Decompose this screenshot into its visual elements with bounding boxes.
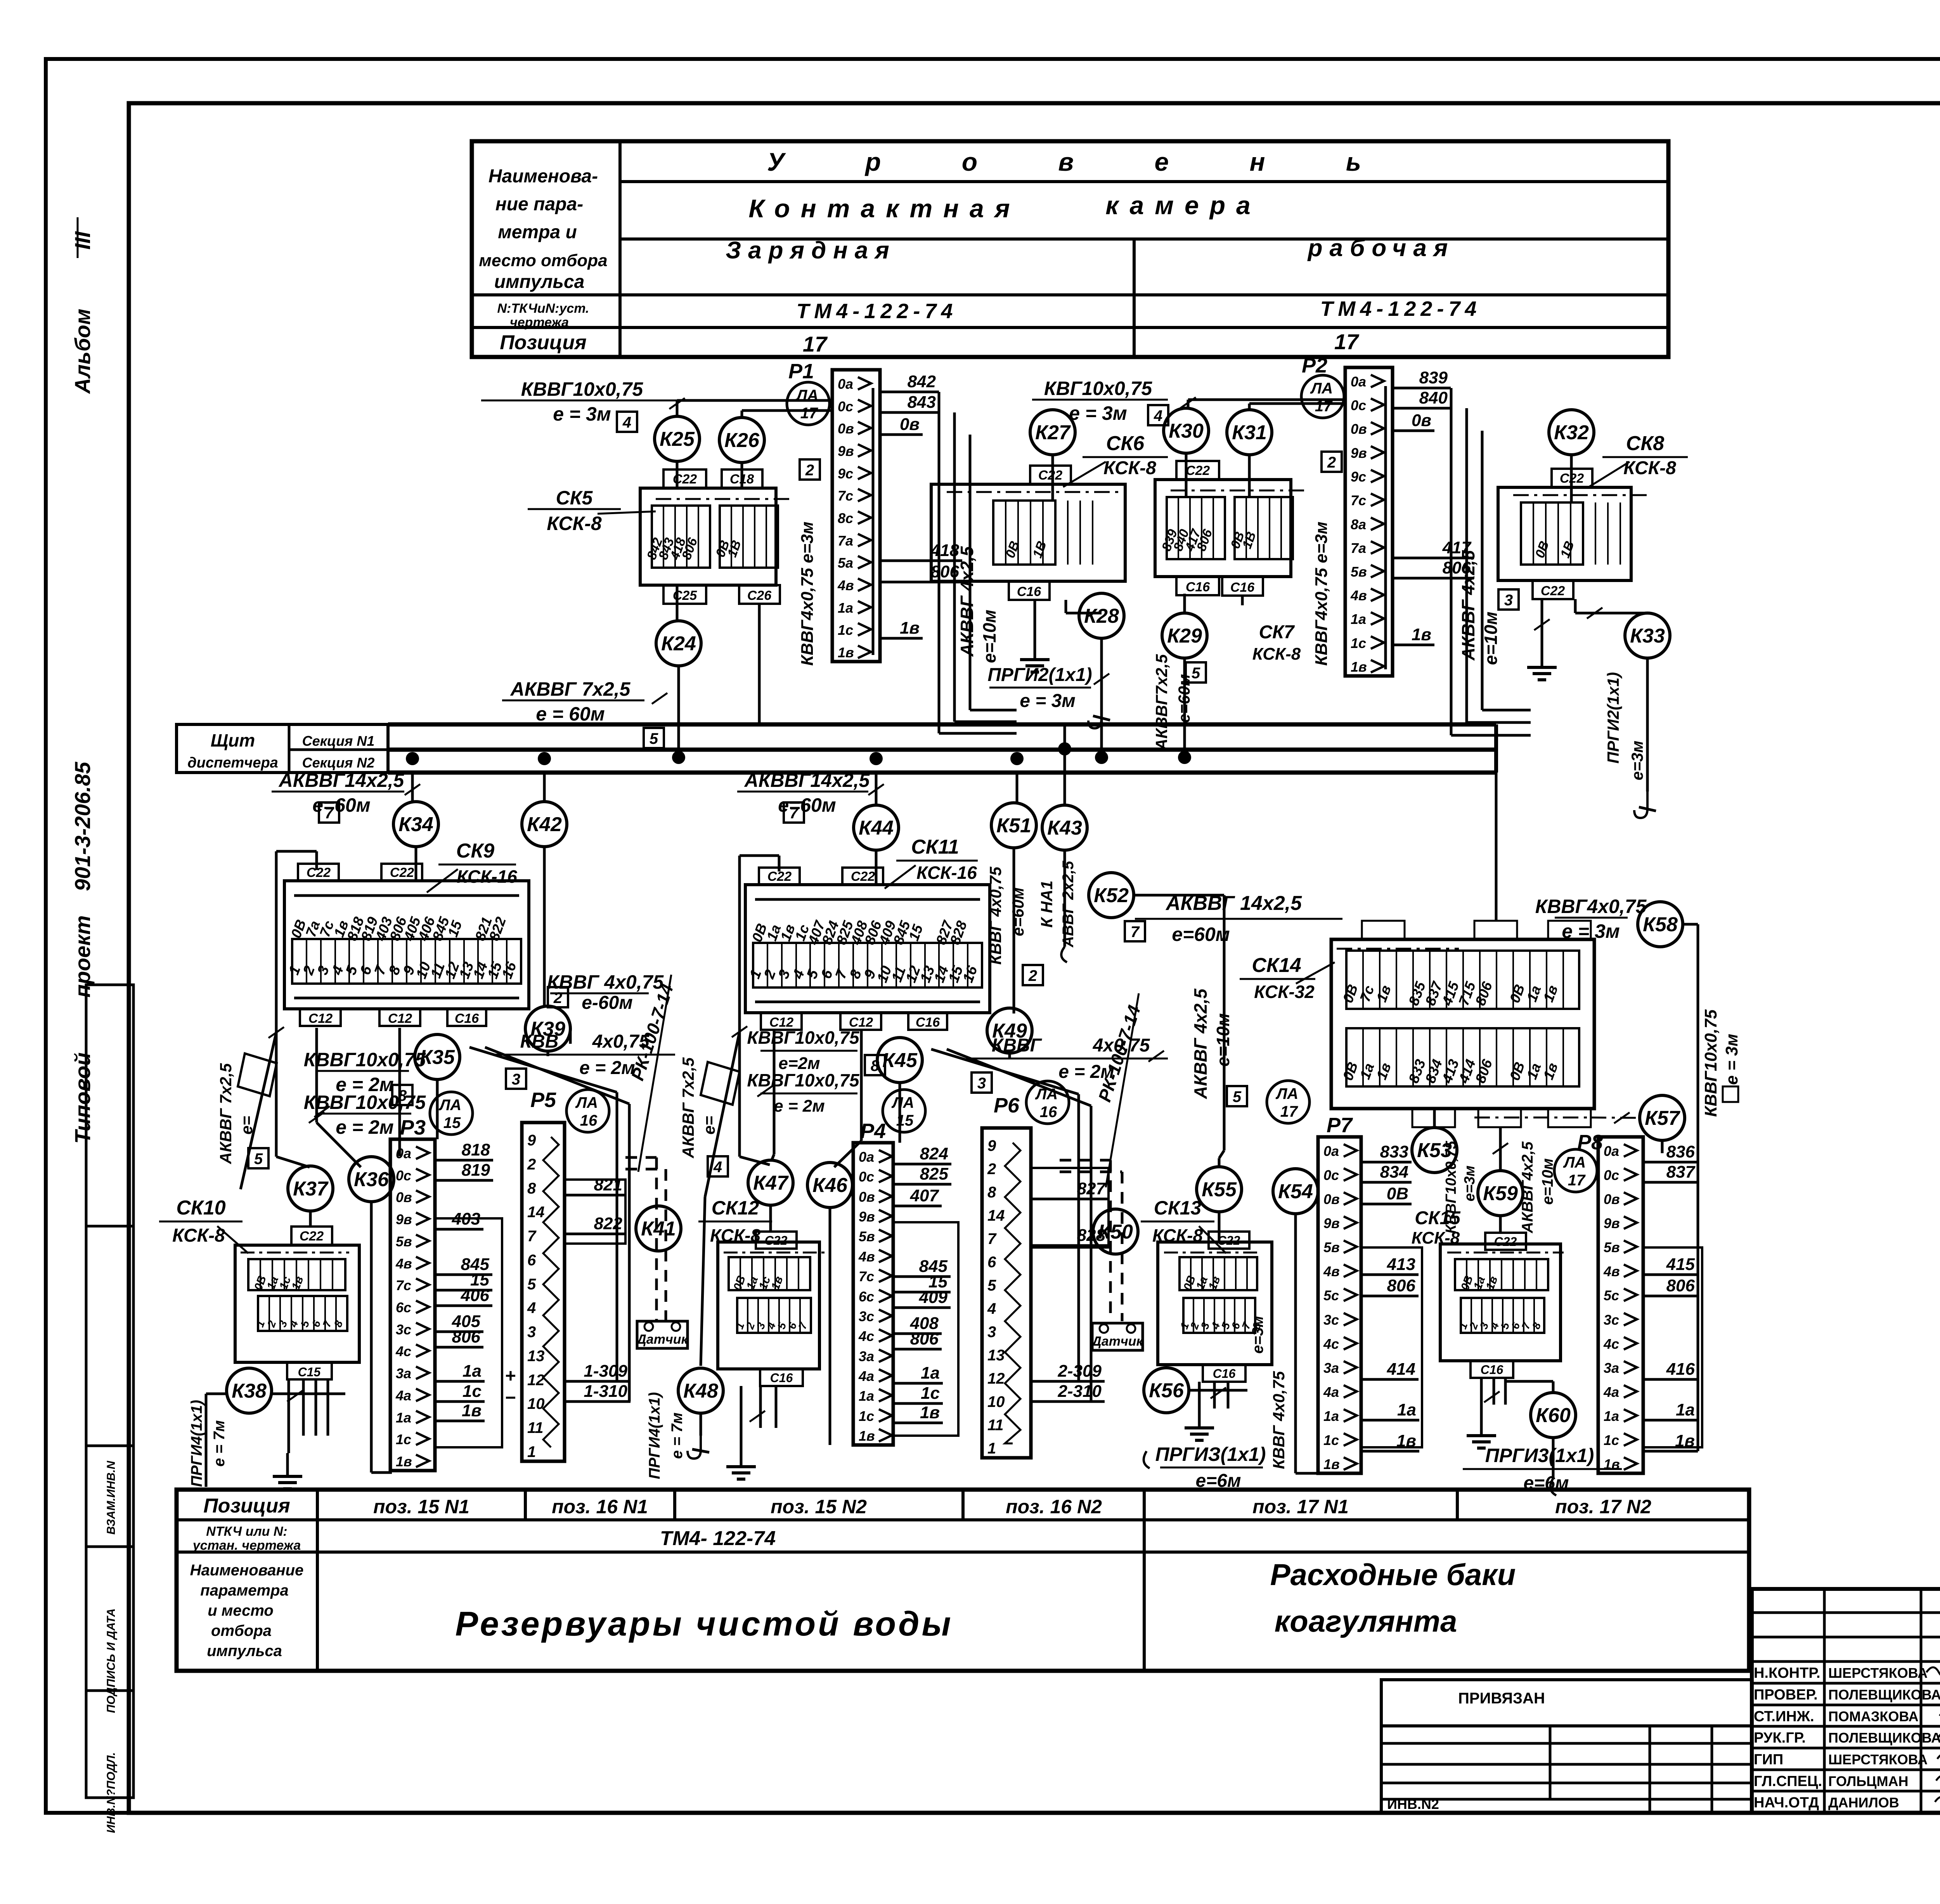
svg-text:КСК-8: КСК-8 — [1623, 458, 1676, 478]
svg-text:ВЗАМ.ИНВ.N: ВЗАМ.ИНВ.N — [105, 1460, 118, 1535]
wire K46 down — [829, 1208, 831, 1445]
wire 1-310 from Р5 — [565, 1400, 630, 1403]
svg-text:7: 7 — [1131, 923, 1140, 941]
terminal block СК5 — [640, 488, 776, 585]
svg-text:Альбом: Альбом — [70, 309, 95, 395]
connector circle К41 — [636, 1206, 681, 1251]
wire bundle from P1 right — [938, 392, 941, 733]
svg-text:С22: С22 — [765, 1234, 788, 1247]
dashed pair to K41 and sensor — [625, 1156, 656, 1159]
wire K28 down with hook — [1100, 638, 1103, 757]
wires SK6 bottom — [1034, 600, 1036, 636]
svg-text:2: 2 — [527, 1156, 536, 1173]
svg-text:С16: С16 — [1017, 584, 1041, 599]
wire 806 from Р4 — [893, 1348, 942, 1351]
svg-text:е=60м: е=60м — [778, 794, 836, 816]
svg-text:С22: С22 — [1038, 468, 1062, 483]
dispatcher panel bus box — [177, 724, 388, 773]
ground — [286, 1453, 289, 1476]
svg-text:Расходные баки: Расходные баки — [1270, 1558, 1516, 1592]
svg-text:К36: К36 — [354, 1168, 389, 1191]
svg-text:е=10м: е=10м — [1481, 612, 1501, 665]
svg-text:е = 3м: е = 3м — [553, 403, 611, 425]
svg-text:СК10: СК10 — [176, 1197, 225, 1219]
svg-text:К44: К44 — [859, 817, 894, 839]
wire 1а from Р4 — [893, 1382, 943, 1385]
svg-text:ПОЛЕВЩИКОВА: ПОЛЕВЩИКОВА — [1828, 1730, 1940, 1746]
svg-text:КВВ: КВВ — [520, 1031, 559, 1052]
svg-text:СК5: СК5 — [556, 487, 593, 509]
wire 834 from Р7 — [1361, 1181, 1412, 1184]
wire 806 from Р7 — [1361, 1295, 1419, 1298]
top parameter table — [472, 141, 1668, 357]
svg-text:3: 3 — [527, 1324, 536, 1341]
svg-text:4: 4 — [987, 1300, 996, 1317]
jumper SK9 C22 to K37 — [276, 850, 317, 853]
ground — [1198, 1412, 1201, 1428]
svg-text:4в: 4в — [858, 1249, 875, 1265]
connector circle К30 — [1164, 408, 1209, 453]
wire 413 from Р7 — [1361, 1273, 1419, 1276]
svg-text:СК12: СК12 — [712, 1197, 759, 1219]
svg-text:5с: 5с — [1604, 1287, 1619, 1303]
svg-text:К45: К45 — [882, 1049, 918, 1072]
svg-text:Р3: Р3 — [400, 1116, 426, 1139]
СК5 top connector С22 — [663, 470, 706, 488]
wires below SK12 — [740, 1386, 743, 1443]
svg-text:5а: 5а — [838, 555, 853, 571]
wire 842 from — [880, 391, 939, 393]
svg-text:С16: С16 — [1213, 1367, 1236, 1381]
svg-text:КСК-32: КСК-32 — [1254, 982, 1315, 1002]
svg-text:4а: 4а — [1323, 1384, 1339, 1400]
svg-text:8: 8 — [987, 1184, 996, 1201]
wire K54 down — [1294, 1214, 1297, 1473]
svg-text:5в: 5в — [1604, 1239, 1620, 1255]
svg-text:7: 7 — [987, 1230, 997, 1247]
svg-text:КСК-8: КСК-8 — [172, 1225, 225, 1246]
svg-text:С16: С16 — [1186, 580, 1210, 594]
svg-text:Датчик: Датчик — [636, 1332, 688, 1347]
svg-text:1с: 1с — [838, 622, 853, 638]
wire 417 from — [1393, 557, 1474, 560]
wire K27 to SK6 — [1051, 455, 1054, 501]
svg-text:е-60м: е-60м — [582, 993, 633, 1013]
terminal block SK12 — [718, 1242, 819, 1369]
P3 label box — [435, 1218, 502, 1447]
СК5 bottom connector С25 — [663, 585, 706, 604]
svg-text:4с: 4с — [858, 1328, 874, 1344]
bus wire to K42 — [543, 773, 546, 802]
svg-text:КВВГ4х0,75: КВВГ4х0,75 — [1535, 896, 1647, 917]
svg-text:1а: 1а — [396, 1410, 411, 1426]
dashed pair mid — [1060, 1159, 1110, 1162]
svg-text:С16: С16 — [1230, 580, 1255, 595]
connector circle К49 — [987, 1008, 1032, 1053]
svg-text:е = 60м: е = 60м — [536, 703, 605, 725]
svg-text:Датчик: Датчик — [1091, 1334, 1143, 1349]
svg-text:Зарядная: Зарядная — [726, 237, 896, 264]
svg-text:КСК-8: КСК-8 — [1252, 644, 1301, 664]
svg-text:К НА1: К НА1 — [1038, 880, 1056, 928]
wire K37 K36 to SK10 — [309, 1211, 312, 1227]
svg-text:4а: 4а — [858, 1368, 874, 1384]
svg-text:КВВГ10х0,75: КВВГ10х0,75 — [521, 378, 644, 400]
svg-text:КВВГ: КВВГ — [992, 1035, 1043, 1056]
svg-text:К33: К33 — [1630, 625, 1665, 647]
wire K35 down — [436, 1079, 439, 1139]
svg-text:ЛА: ЛА — [575, 1094, 598, 1111]
connector circle К42 — [522, 802, 567, 847]
svg-text:7: 7 — [325, 805, 334, 822]
wire 840 from — [1393, 407, 1451, 410]
instrument ЛА16 — [566, 1090, 609, 1132]
svg-text:6: 6 — [987, 1254, 996, 1271]
wire K34 to SK9 — [415, 847, 417, 881]
wire K38 right link — [272, 1393, 345, 1395]
svg-text:4: 4 — [527, 1299, 536, 1317]
svg-text:С22: С22 — [300, 1229, 324, 1244]
connector circle К57 — [1640, 1095, 1685, 1140]
svg-text:АКВВГ 4х2,5: АКВВГ 4х2,5 — [1458, 550, 1478, 661]
svg-text:ЛА: ЛА — [1275, 1085, 1298, 1102]
svg-text:0а: 0а — [1351, 374, 1366, 390]
connector circle К33 — [1625, 613, 1670, 658]
wire 1в from Р4 — [893, 1422, 943, 1424]
svg-text:1в: 1в — [920, 1403, 940, 1422]
svg-text:С22: С22 — [1218, 1234, 1240, 1247]
svg-text:К54: К54 — [1278, 1180, 1313, 1203]
svg-text:е=10м: е=10м — [1213, 1013, 1233, 1067]
svg-text:К30: К30 — [1169, 420, 1204, 442]
wire 405 from Р3 — [435, 1331, 483, 1333]
marker box 4 — [1148, 405, 1168, 425]
svg-text:11: 11 — [527, 1419, 544, 1436]
svg-text:СК11: СК11 — [911, 836, 959, 858]
wire K26 to P1 — [741, 411, 743, 418]
connector circle К31 — [1227, 410, 1272, 455]
wire K45 down — [899, 1083, 901, 1143]
svg-text:е=3м: е=3м — [1249, 1316, 1266, 1353]
jumper SK11 C22 to K47 — [740, 854, 779, 857]
wire top to K30 — [1187, 400, 1190, 408]
wire K24 chain — [676, 585, 679, 621]
svg-text:КВВГ10х0,75: КВВГ10х0,75 — [304, 1049, 426, 1071]
svg-text:0в: 0в — [838, 421, 854, 437]
svg-text:5: 5 — [254, 1150, 263, 1168]
svg-text:АВВГ 2х2,5: АВВГ 2х2,5 — [1060, 861, 1077, 948]
svg-text:1с: 1с — [462, 1382, 482, 1401]
svg-text:901-3-206.85: 901-3-206.85 — [70, 762, 95, 891]
svg-text:8с: 8с — [838, 510, 853, 526]
svg-text:4: 4 — [622, 414, 631, 431]
ground — [740, 1443, 743, 1467]
wire 833 from Р7 — [1361, 1161, 1412, 1164]
box around 821 822 — [565, 1180, 625, 1244]
svg-text:ИНВ.N2: ИНВ.N2 — [1387, 1796, 1439, 1812]
svg-text:К27: К27 — [1035, 421, 1071, 444]
svg-text:3: 3 — [512, 1071, 520, 1088]
svg-text:С22: С22 — [673, 472, 697, 487]
svg-text:ПРГИЗ(1х1): ПРГИЗ(1х1) — [1155, 1443, 1266, 1465]
svg-text:Р2: Р2 — [1302, 354, 1327, 377]
svg-text:КВВГ 4х0,75: КВВГ 4х0,75 — [1270, 1371, 1288, 1469]
svg-text:К37: К37 — [293, 1178, 329, 1200]
svg-text:5в: 5в — [1323, 1239, 1340, 1255]
marker box 8 — [392, 1085, 412, 1105]
svg-text:поз. 16 N1: поз. 16 N1 — [552, 1496, 648, 1518]
svg-text:7с: 7с — [396, 1277, 411, 1293]
bus wires to K44 K51 K43 — [875, 773, 878, 805]
svg-text:Позиция: Позиция — [500, 331, 586, 354]
svg-text:К57: К57 — [1645, 1107, 1680, 1130]
svg-text:17: 17 — [800, 405, 818, 422]
svg-text:0в: 0в — [1323, 1191, 1340, 1207]
svg-text:3: 3 — [987, 1324, 996, 1341]
SK14 connector tabs — [1362, 921, 1405, 939]
svg-text:1а: 1а — [1604, 1408, 1619, 1424]
connector circle К38 — [227, 1368, 272, 1413]
wire 1в from — [1393, 644, 1434, 646]
svg-text:1а: 1а — [1676, 1400, 1695, 1419]
svg-text:414: 414 — [1387, 1360, 1415, 1379]
svg-text:2: 2 — [805, 462, 814, 479]
svg-text:1: 1 — [527, 1443, 536, 1460]
svg-text:834: 834 — [1380, 1162, 1408, 1182]
sensor Datchik — [1092, 1323, 1143, 1350]
svg-text:9в: 9в — [1323, 1215, 1340, 1231]
title block — [1752, 1589, 1940, 1813]
svg-text:Типовой: Типовой — [70, 1052, 95, 1144]
svg-text:2: 2 — [553, 989, 562, 1007]
svg-text:1-309: 1-309 — [584, 1362, 627, 1381]
svg-text:СК15: СК15 — [1415, 1208, 1461, 1228]
svg-text:824: 824 — [920, 1144, 948, 1163]
wire 806 from — [1393, 577, 1474, 580]
connector circle К35 — [415, 1034, 460, 1079]
relay Р6 — [982, 1128, 1031, 1458]
svg-text:ЛА: ЛА — [1310, 380, 1333, 397]
svg-text:е=3м: е=3м — [1628, 741, 1646, 780]
svg-text:0а: 0а — [838, 376, 853, 392]
svg-text:1а: 1а — [859, 1388, 874, 1404]
connector circle К26 — [719, 418, 764, 463]
svg-text:К52: К52 — [1094, 884, 1129, 907]
wire 1а from Р7 — [1361, 1419, 1419, 1422]
svg-text:−: − — [505, 1388, 516, 1408]
svg-text:Р5: Р5 — [530, 1088, 556, 1112]
svg-text:импульса: импульса — [494, 272, 585, 292]
svg-text:чертежа: чертежа — [510, 315, 569, 330]
svg-text:СК9: СК9 — [456, 840, 495, 862]
svg-text:КВГ10х0,75: КВГ10х0,75 — [1044, 378, 1152, 399]
svg-text:4в: 4в — [837, 577, 854, 593]
svg-text:7а: 7а — [838, 533, 853, 549]
svg-text:ТМ4-122-74: ТМ4-122-74 — [797, 300, 958, 323]
svg-text:е=: е= — [700, 1116, 718, 1135]
marker box 3 — [506, 1069, 526, 1089]
svg-text:ШЕРСТЯКОВА: ШЕРСТЯКОВА — [1828, 1752, 1928, 1767]
marker box 2 — [1023, 965, 1043, 985]
svg-text:839: 839 — [1419, 368, 1448, 387]
svg-text:К34: К34 — [398, 813, 433, 836]
svg-text:4с: 4с — [395, 1343, 411, 1359]
wire 2-310 from Р6 — [1031, 1400, 1105, 1403]
terminal block SK15 — [1440, 1244, 1561, 1361]
svg-text:ТМ4- 122-74: ТМ4- 122-74 — [660, 1527, 776, 1550]
svg-text:ТМ4-122-74: ТМ4-122-74 — [1320, 297, 1481, 321]
svg-text:К55: К55 — [1202, 1178, 1237, 1201]
instrument ЛА17 — [1554, 1149, 1597, 1192]
wire K33 down with PRGI label — [1646, 658, 1649, 792]
wires below SK8 — [1541, 599, 1543, 644]
svg-text:К29: К29 — [1167, 625, 1202, 647]
svg-text:5: 5 — [1233, 1088, 1242, 1105]
wire 828 from Р6 — [1031, 1244, 1109, 1247]
svg-text:КСК-8: КСК-8 — [547, 513, 602, 534]
СК7 top connector С22 — [1176, 461, 1219, 480]
bus section N1 — [388, 722, 1496, 727]
svg-text:К47: К47 — [753, 1172, 789, 1194]
svg-text:ПОМАЗКОВА: ПОМАЗКОВА — [1828, 1708, 1919, 1724]
svg-text:0в: 0в — [1604, 1191, 1620, 1207]
svg-text:3с: 3с — [1323, 1312, 1339, 1328]
wire 845 from Р3 — [435, 1273, 492, 1276]
svg-text:Наименова-: Наименова- — [488, 166, 598, 187]
P8 label box — [1643, 1247, 1702, 1447]
svg-text:СК14: СК14 — [1252, 954, 1301, 977]
connector circle К45 — [877, 1038, 922, 1083]
wire 824 from Р4 — [893, 1163, 951, 1166]
wire 806 from — [880, 581, 962, 584]
svg-text:К43: К43 — [1047, 817, 1082, 839]
wire K25 to SK5 — [676, 461, 679, 490]
wire 822 from Р5 — [565, 1233, 625, 1235]
svg-text:1а: 1а — [1323, 1408, 1339, 1424]
svg-text:диспетчера: диспетчера — [187, 755, 278, 771]
svg-text:поз. 15 N1: поз. 15 N1 — [373, 1496, 469, 1518]
connector circle К39 — [525, 1006, 570, 1051]
svg-text:0а: 0а — [1604, 1143, 1619, 1159]
svg-text:4а: 4а — [1603, 1384, 1619, 1400]
svg-text:1а: 1а — [462, 1362, 482, 1381]
marker box 3 — [1498, 589, 1519, 610]
connector circle К29 — [1162, 613, 1207, 658]
svg-text:и место: и место — [208, 1602, 274, 1619]
svg-text:0а: 0а — [396, 1145, 411, 1161]
svg-text:5в: 5в — [396, 1234, 412, 1249]
svg-text:У р о в е н ь: У р о в е н ь — [767, 147, 1398, 176]
svg-text:К38: К38 — [232, 1380, 267, 1402]
wire 1в from — [1643, 1450, 1698, 1453]
wire 836 from — [1643, 1161, 1698, 1164]
relay — [1598, 1137, 1643, 1473]
connector circle К37 — [288, 1166, 333, 1211]
СК9 connectors — [298, 864, 339, 881]
svg-text:ПОЛЕВЩИКОВА: ПОЛЕВЩИКОВА — [1828, 1687, 1940, 1703]
svg-text:5: 5 — [1192, 665, 1200, 682]
svg-text:0В: 0В — [1387, 1184, 1408, 1203]
svg-text:Р7: Р7 — [1327, 1114, 1353, 1137]
svg-text:е=60м: е=60м — [1172, 923, 1230, 945]
relay Р7 — [1318, 1137, 1361, 1473]
svg-text:818: 818 — [462, 1140, 490, 1159]
svg-text:17: 17 — [803, 332, 828, 356]
svg-text:836: 836 — [1666, 1142, 1695, 1161]
svg-text:1а: 1а — [921, 1363, 940, 1383]
svg-text:0в: 0в — [1412, 411, 1431, 430]
svg-text:1с: 1с — [1323, 1432, 1339, 1448]
svg-text:е = 3м: е = 3м — [1722, 1034, 1741, 1085]
svg-text:1а: 1а — [1351, 611, 1366, 627]
SK5 second top connector — [722, 470, 762, 488]
svg-text:4с: 4с — [1603, 1336, 1619, 1352]
svg-text:поз. 17 N1: поз. 17 N1 — [1252, 1496, 1349, 1518]
svg-text:1с: 1с — [921, 1384, 940, 1403]
wire 416 from — [1643, 1378, 1698, 1381]
svg-text:ПРГИ2(1х1): ПРГИ2(1х1) — [1604, 672, 1622, 764]
svg-text:коагулянта: коагулянта — [1275, 1604, 1457, 1638]
svg-text:842: 842 — [908, 372, 936, 391]
svg-text:Р6: Р6 — [994, 1094, 1020, 1117]
relay Р5 — [522, 1123, 565, 1461]
wire 406 from Р3 — [435, 1305, 492, 1307]
svg-text:12: 12 — [527, 1372, 545, 1389]
svg-text:0с: 0с — [838, 398, 853, 414]
connector circle К56 — [1144, 1368, 1189, 1413]
wire 2-309 from Р6 — [1031, 1380, 1105, 1383]
svg-text:е=: е= — [237, 1116, 256, 1135]
svg-text:840: 840 — [1419, 388, 1448, 407]
wire 818 from Р3 — [435, 1159, 493, 1162]
svg-text:1в: 1в — [859, 1428, 875, 1444]
svg-text:0с: 0с — [859, 1169, 874, 1185]
svg-text:3а: 3а — [396, 1365, 411, 1381]
svg-text:17: 17 — [1315, 398, 1333, 415]
P4 label box — [893, 1222, 958, 1436]
marker box 7 — [1125, 921, 1145, 941]
svg-text:К60: К60 — [1536, 1404, 1571, 1427]
svg-text:8: 8 — [871, 1057, 880, 1074]
connector circle К54 — [1273, 1169, 1318, 1214]
wire K42 down to K39 — [543, 847, 546, 1006]
svg-text:С12: С12 — [388, 1011, 412, 1026]
svg-text:СК13: СК13 — [1154, 1197, 1202, 1219]
svg-text:3а: 3а — [859, 1348, 874, 1364]
svg-text:К46: К46 — [812, 1174, 848, 1197]
connector circle К25 — [655, 416, 700, 461]
svg-text:ГОЛЬЦМАН: ГОЛЬЦМАН — [1828, 1773, 1908, 1789]
svg-text:С22: С22 — [307, 865, 331, 880]
svg-text:С22: С22 — [1541, 584, 1565, 598]
instrument ЛА15 — [883, 1090, 925, 1132]
svg-text:15: 15 — [443, 1114, 461, 1131]
svg-text:9: 9 — [527, 1132, 536, 1149]
marker box 5 — [1227, 1086, 1247, 1106]
svg-text:8а: 8а — [1351, 516, 1366, 532]
svg-text:КСК-16: КСК-16 — [457, 866, 517, 887]
svg-text:3с: 3с — [396, 1322, 411, 1337]
connector circle К58 — [1638, 902, 1683, 947]
svg-text:2: 2 — [1327, 454, 1336, 471]
connector circle К47 — [748, 1160, 793, 1205]
svg-text:2: 2 — [987, 1161, 996, 1178]
svg-text:5: 5 — [527, 1276, 536, 1293]
svg-text:7с: 7с — [1351, 492, 1366, 508]
svg-text:Наименование: Наименование — [190, 1562, 304, 1579]
svg-text:1с: 1с — [396, 1431, 411, 1447]
wire right vertical K58 — [1683, 923, 1698, 926]
